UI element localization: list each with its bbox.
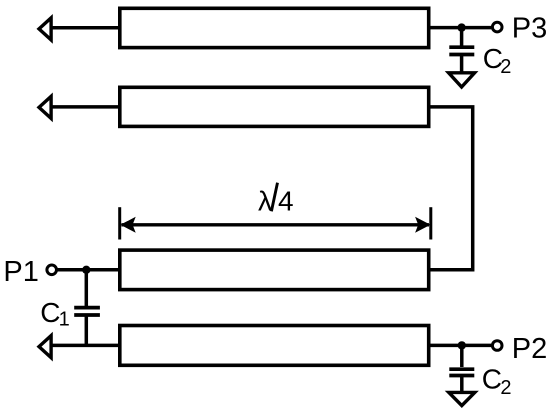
port P1 terminal circle (47, 265, 57, 275)
capacitor C2 (top) upper lead (460, 28, 464, 46)
wire: resonator 4 left lead (51, 344, 121, 348)
capacitor C2 (bottom) upper lead (460, 345, 464, 367)
dimension extension tick (left) (118, 207, 121, 239)
ground symbol (below top C2) (449, 73, 475, 87)
capacitor C2 (bottom) plate 2 (449, 374, 474, 378)
ground arrow (short-circuited end of resonator 1) (39, 18, 51, 40)
capacitor C1 upper lead (85, 270, 89, 306)
node: junction resonator4 / C2 / P2 (458, 341, 466, 349)
resonator 3 (120, 250, 429, 290)
dimension arrowhead right (415, 217, 430, 233)
fraction slash (of λ/4) (271, 183, 277, 212)
svg-text:4: 4 (278, 186, 294, 217)
dimension extension tick (right) (429, 207, 432, 239)
svg-text:P2: P2 (512, 333, 547, 365)
capacitor C2 (top) plate 1 (449, 45, 474, 49)
resonator 4 (120, 326, 429, 366)
wire: resonator 1 left lead (51, 26, 121, 30)
wire: resonator 1 right lead to port P3 (427, 26, 491, 30)
port P3 terminal circle (492, 22, 502, 32)
port P2 terminal circle (492, 341, 502, 351)
capacitor C1 plate 2 (74, 313, 100, 317)
wire: resonator 4 right lead to port P2 (427, 344, 491, 348)
ground symbol (below bottom C2) (449, 392, 475, 405)
svg-text:P3: P3 (512, 13, 547, 45)
dimension line (λ/4 span) (122, 223, 430, 226)
wire: P1 to resonator 3 (56, 268, 121, 272)
capacitor C2 (bottom) plate 1 (449, 367, 474, 371)
resonator 2 (120, 87, 429, 126)
wire: resonator 2 right end down to resonator 3 right end (427, 107, 473, 270)
wire: C2 (bottom) to ground (460, 376, 464, 393)
dimension arrowhead left (120, 217, 135, 233)
svg-text:λ: λ (258, 186, 272, 217)
capacitor C1 plate 1 (74, 306, 100, 310)
ground arrow (short-circuited end of resonator 2) (39, 96, 51, 118)
wire: resonator 2 left lead (51, 105, 121, 109)
capacitor C2 (top) plate 2 (449, 53, 474, 57)
ground arrow (short-circuited end of resonator 4) (39, 336, 51, 358)
resonator 1 (top transmission line) (120, 8, 429, 47)
node: junction resonator1 / C2 / P3 (457, 23, 465, 31)
wire: C2 (top) to ground (460, 55, 464, 73)
svg-text:P1: P1 (3, 256, 38, 288)
capacitor C1 lower lead (85, 315, 89, 345)
node: junction P1 / C1 / resonator 3 (82, 266, 90, 274)
